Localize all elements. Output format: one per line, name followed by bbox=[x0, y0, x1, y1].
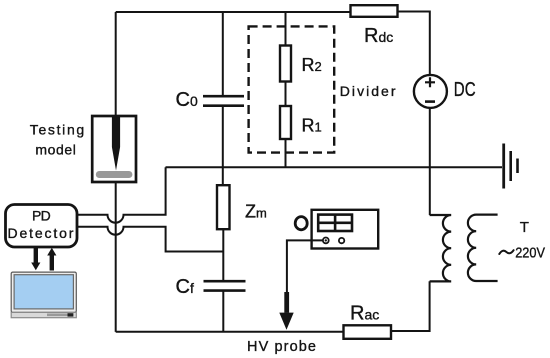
oscilloscope box bbox=[312, 210, 379, 249]
wire oscilloscope to HV probe bbox=[287, 240, 323, 292]
svg-text:Cf: Cf bbox=[176, 276, 194, 298]
computer monitor bbox=[11, 272, 76, 318]
svg-text:Rac: Rac bbox=[350, 303, 379, 325]
capacitor C0 bbox=[222, 12, 224, 96]
svg-text:model: model bbox=[35, 141, 76, 157]
wire PD lower with hop bbox=[77, 227, 223, 252]
ground bbox=[502, 144, 505, 189]
wire left vertical from top bus to testing model bbox=[115, 12, 117, 116]
svg-text:Divider: Divider bbox=[340, 83, 396, 99]
transformer T primary winding bbox=[430, 215, 452, 281]
svg-text:PD: PD bbox=[32, 207, 51, 223]
svg-text:Detector: Detector bbox=[8, 225, 74, 241]
label ~220V bbox=[499, 250, 513, 254]
DC source U1 bbox=[414, 75, 447, 108]
wire testing model down to bottom bus bbox=[115, 182, 117, 332]
resistor R1 bbox=[280, 106, 291, 139]
capacitor Cf bbox=[204, 281, 246, 290]
transformer T secondary winding bbox=[468, 215, 498, 281]
wire divider branch from top bus bbox=[285, 12, 287, 46]
oscilloscope screen grid bbox=[318, 215, 352, 231]
resistor Rdc bbox=[351, 5, 398, 17]
svg-text:Testing: Testing bbox=[30, 122, 84, 138]
resistor Rac bbox=[344, 325, 392, 339]
testing model cell bbox=[92, 116, 136, 182]
wire PD upper with hop bbox=[77, 167, 166, 222]
wire DC down through ground bus to transformer bbox=[429, 108, 431, 215]
wire bottom bus right and up to transformer bbox=[391, 281, 430, 331]
svg-text:HV probe: HV probe bbox=[247, 339, 316, 355]
HV probe arrow bbox=[279, 292, 293, 330]
wire Rdc to right corner and down to DC bbox=[398, 12, 430, 75]
wire Zm to Cf bbox=[222, 229, 224, 281]
plane electrode bbox=[96, 171, 133, 178]
PD detector box bbox=[6, 205, 78, 248]
wire top bus bbox=[116, 11, 351, 13]
svg-text:DC: DC bbox=[454, 79, 476, 101]
needle electrode bbox=[112, 117, 120, 171]
svg-text:C0: C0 bbox=[176, 89, 198, 111]
wire R1 to ground bus bbox=[285, 139, 287, 167]
resistor R2 bbox=[280, 46, 291, 82]
label O bbox=[295, 217, 307, 230]
wire bottom bus left bbox=[116, 331, 344, 333]
divider dashed box bbox=[249, 26, 335, 152]
arrow computer to PD (up) bbox=[47, 248, 56, 271]
svg-text:220V: 220V bbox=[515, 246, 545, 262]
wire ground bus bbox=[166, 166, 503, 168]
svg-text:Rdc: Rdc bbox=[364, 25, 393, 47]
arrow PD to computer (down) bbox=[31, 248, 40, 270]
svg-text:T: T bbox=[520, 219, 529, 236]
wire R2 to R1 bbox=[285, 82, 287, 107]
impedance Zm bbox=[217, 185, 230, 229]
oscilloscope knob 1 bbox=[323, 238, 329, 244]
oscilloscope knob 2 bbox=[339, 238, 344, 243]
